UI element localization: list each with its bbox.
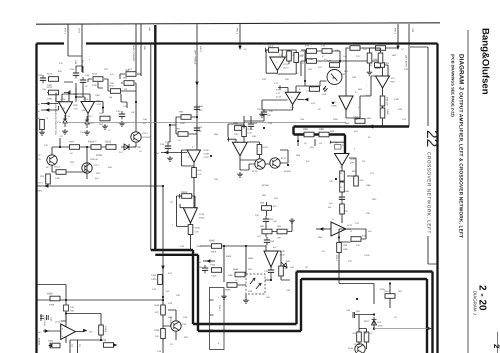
wire F right <box>389 284 391 309</box>
op-amp IC16b apex down <box>81 98 101 114</box>
svg-text:R88: R88 <box>303 128 308 131</box>
svg-text:220K: 220K <box>55 177 61 180</box>
resistor R98 <box>123 77 134 86</box>
wire D row <box>200 246 266 282</box>
svg-text:22K: 22K <box>356 55 360 58</box>
svg-text:R988: R988 <box>233 268 239 271</box>
svg-text:R203: R203 <box>263 146 269 149</box>
svg-text:P40-1: P40-1 <box>394 28 397 35</box>
wire 50Hz line <box>37 182 164 193</box>
wire E4 feed <box>298 135 315 147</box>
node labels scatter 3 <box>226 122 308 299</box>
svg-text:Y400: Y400 <box>210 264 216 267</box>
svg-text:P40-3: P40-3 <box>236 28 239 35</box>
diode D41 <box>372 317 384 328</box>
resistor C98B <box>374 43 386 51</box>
resistor R86B <box>380 96 388 106</box>
svg-text:DIAGRAM J OUTPUT AMPLIFIER, LE: DIAGRAM J OUTPUT AMPLIFIER, LEFT & CROSS… <box>458 54 465 238</box>
svg-text:P41-1: P41-1 <box>218 305 221 312</box>
svg-text:4148: 4148 <box>378 325 384 328</box>
svg-text:BC560: BC560 <box>284 170 291 173</box>
op-amp IC14c apex down <box>331 96 353 110</box>
resistor R79 <box>349 43 360 51</box>
svg-text:100n: 100n <box>373 58 379 61</box>
wire D out <box>224 251 290 298</box>
capacitor C4D <box>116 110 125 119</box>
svg-text:R74: R74 <box>268 45 273 48</box>
svg-text:R214: R214 <box>92 73 98 76</box>
label C19 C20 <box>71 344 82 348</box>
resistor R206 <box>88 141 101 150</box>
capacitor C43 <box>376 48 383 63</box>
svg-text:LDR: LDR <box>322 93 327 96</box>
resistor R987 <box>209 240 222 254</box>
capacitor C89 <box>227 137 236 142</box>
resistor R75 <box>294 53 304 63</box>
svg-text:R7B: R7B <box>327 60 332 63</box>
input arrow AA treble <box>156 151 187 155</box>
svg-text:R72C: R72C <box>283 63 289 66</box>
svg-text:100K: 100K <box>96 154 102 157</box>
wire P40-1 7V stub <box>394 24 405 51</box>
node J4 <box>297 140 299 142</box>
svg-text:C4D: C4D <box>116 110 121 113</box>
svg-text:R209: R209 <box>248 128 254 131</box>
svg-text:1C16: 1C16 <box>60 98 66 101</box>
node J1 <box>162 296 164 298</box>
svg-text:1C22: 1C22 <box>350 158 356 161</box>
svg-text:100K: 100K <box>92 84 98 87</box>
svg-text:DIAGRAM J: DIAGRAM J <box>473 291 478 315</box>
svg-text:1C22: 1C22 <box>347 224 353 227</box>
svg-text:100n: 100n <box>343 248 349 251</box>
capacitor C41B <box>380 108 389 118</box>
svg-text:100n: 100n <box>366 184 372 187</box>
svg-text:10K: 10K <box>277 237 281 240</box>
svg-text:10K: 10K <box>285 78 289 81</box>
ground g3 <box>102 124 108 129</box>
svg-text:R7A: R7A <box>344 70 349 73</box>
svg-text:100K: 100K <box>47 98 53 101</box>
svg-text:R987: R987 <box>47 293 54 296</box>
resistor R40A <box>151 266 165 285</box>
wire LEFT BASS <box>405 24 415 117</box>
capacitor C74 <box>287 51 295 61</box>
svg-text:C41B: C41B <box>386 109 389 115</box>
svg-text:R80C: R80C <box>331 101 337 104</box>
svg-text:C40A: C40A <box>211 275 217 278</box>
wire ladder D <box>266 202 292 251</box>
resistor R96 <box>179 111 191 126</box>
svg-text:R189: R189 <box>154 304 160 307</box>
input arrow AA D <box>198 259 215 264</box>
svg-text:LEFT TREBLE: LEFT TREBLE <box>194 50 197 65</box>
wire vertical 50Hz branch <box>162 186 164 341</box>
capacitor C76 <box>321 45 339 54</box>
resistor R94b <box>277 225 287 240</box>
svg-text:10K: 10K <box>110 82 114 85</box>
frame gap at P22 crossing <box>64 42 86 46</box>
wire P40-3 -7V stub <box>236 24 247 51</box>
svg-text:0R22: 0R22 <box>364 320 370 323</box>
capacitor C88 <box>248 121 258 129</box>
transistor TR15 <box>254 159 265 175</box>
diode D90 <box>281 260 291 268</box>
capacitor C42 <box>363 48 372 63</box>
svg-text:1N4148: 1N4148 <box>90 158 98 161</box>
svg-text:22K: 22K <box>80 131 84 134</box>
wire P22-1 entry <box>64 24 83 72</box>
svg-text:22: 22 <box>423 130 440 147</box>
ground g11 <box>289 218 295 223</box>
svg-text:3C14: 3C14 <box>283 67 289 70</box>
resistor R52 <box>36 117 44 130</box>
wire bottom left chain <box>163 310 176 353</box>
input arrow AA left lower <box>37 106 59 113</box>
diode D17 <box>85 116 94 128</box>
node labels scatter <box>42 68 147 180</box>
svg-text:P22-1: P22-1 <box>64 28 67 35</box>
wire mid chain <box>190 235 192 251</box>
svg-text:-7V: -7V <box>243 48 247 51</box>
svg-text:100n: 100n <box>196 245 202 248</box>
svg-text:200V: 200V <box>367 117 373 120</box>
resistor R193 <box>384 290 395 298</box>
resistor R19A <box>48 340 60 348</box>
op-amp IC22b <box>331 218 353 236</box>
capacitor C4E <box>80 74 90 88</box>
resistor R44 <box>40 174 50 184</box>
svg-text:22K: 22K <box>269 110 273 113</box>
svg-text:Bang&Olufsen: Bang&Olufsen <box>480 28 491 95</box>
svg-text:C4D: C4D <box>152 288 157 291</box>
svg-text:22K: 22K <box>274 197 278 200</box>
photoresistor LDR1 <box>322 70 342 97</box>
svg-text:63V: 63V <box>58 70 62 73</box>
capacitor C91 <box>70 68 79 78</box>
resistor R211 <box>109 85 121 100</box>
resistor R190 <box>154 329 165 339</box>
svg-text:2C18: 2C18 <box>199 213 205 216</box>
capacitor C72 <box>274 82 288 92</box>
node J7 <box>389 282 391 284</box>
transistor TR12 <box>37 154 58 165</box>
resistor R41B <box>54 166 66 181</box>
svg-text:22K: 22K <box>44 144 48 147</box>
wire C2 links <box>228 115 264 160</box>
op-amp IC16a apex down <box>59 98 79 114</box>
svg-text:100n: 100n <box>333 118 339 121</box>
resistor R205 <box>233 122 245 137</box>
wire E caps <box>370 48 381 70</box>
wire E5 out <box>339 229 366 284</box>
op-amp IC18b <box>55 321 76 340</box>
bus A main trace <box>151 25 301 331</box>
input arrow E2 <box>262 98 308 101</box>
svg-text:50Hz: 50Hz <box>37 190 42 193</box>
svg-text:2C17: 2C17 <box>94 164 100 167</box>
svg-text:0C20: 0C20 <box>252 170 258 173</box>
capacitor C97 <box>194 125 203 133</box>
wire standby rail <box>37 285 67 344</box>
connector P41-1 <box>210 288 225 350</box>
capacitor C18A <box>40 314 53 327</box>
svg-text:R212: R212 <box>47 86 53 89</box>
resistor R203 <box>257 145 268 155</box>
wire E fb <box>317 46 398 63</box>
svg-text:C40A: C40A <box>151 278 157 281</box>
diode D40 <box>64 305 75 313</box>
svg-text:R41 A: R41 A <box>384 290 390 293</box>
op-amp IC20c apex down <box>264 248 286 267</box>
svg-text:1C18: 1C18 <box>55 321 61 324</box>
capacitor C87 <box>257 108 271 117</box>
resistor R194 <box>353 332 362 346</box>
resistor R88 <box>303 128 314 137</box>
resistor R74 <box>266 45 279 52</box>
svg-text:63V: 63V <box>50 318 53 322</box>
svg-text:10K: 10K <box>308 68 312 71</box>
resistor R94 ladder <box>260 225 272 234</box>
svg-text:2C16: 2C16 <box>83 98 89 101</box>
svg-text:10K: 10K <box>366 212 370 215</box>
node labels scatter 5 <box>59 42 409 263</box>
svg-text:2C: 2C <box>170 201 173 204</box>
svg-text:47K: 47K <box>344 210 348 213</box>
resistor R22B <box>340 182 345 192</box>
svg-text:R181: R181 <box>181 191 188 194</box>
svg-text:47K: 47K <box>306 160 310 163</box>
svg-text:2C20: 2C20 <box>204 156 210 159</box>
bus B speaker trace <box>294 127 433 353</box>
margin separator rule <box>467 30 469 353</box>
wire cluster A <box>64 66 141 132</box>
wire bias line y300 <box>37 299 164 301</box>
transistor TR17 <box>348 344 365 353</box>
svg-text:C80B: C80B <box>331 105 337 108</box>
wire C2 out <box>240 150 288 170</box>
svg-text:R213: R213 <box>47 73 53 76</box>
margin next column fragment <box>492 332 500 353</box>
resistor R181 feedback <box>180 191 196 208</box>
svg-text:0C14: 0C14 <box>143 132 149 135</box>
svg-text:D88: D88 <box>319 128 324 131</box>
resistor R213 <box>47 73 59 88</box>
svg-text:1M: 1M <box>109 96 112 99</box>
ground g1 <box>62 129 68 134</box>
svg-text:R18C: R18C <box>199 217 205 220</box>
node J5 <box>373 313 375 315</box>
svg-text:AMPL STANDBY: AMPL STANDBY <box>132 45 135 62</box>
capacitor C96 <box>194 104 204 112</box>
svg-text:R18 B: R18 B <box>104 326 107 333</box>
svg-text:C4E: C4E <box>85 74 90 77</box>
resistor R80 <box>306 87 320 93</box>
svg-text:47K: 47K <box>300 54 304 57</box>
svg-text:R20C: R20C <box>204 149 210 152</box>
svg-text:C41B: C41B <box>364 254 370 257</box>
22 crossover leader line <box>410 47 437 264</box>
resistor R91B <box>337 243 349 253</box>
resistor R41C <box>351 235 367 242</box>
capacitor C46 <box>346 309 374 318</box>
wire A extra links <box>47 82 136 163</box>
wire bass feed <box>408 117 410 127</box>
wire bias rail gray <box>65 123 373 129</box>
svg-text:R207: R207 <box>69 141 75 144</box>
svg-text:100n: 100n <box>95 94 101 97</box>
svg-text:220K: 220K <box>394 98 400 101</box>
resistor R195 <box>364 332 373 342</box>
svg-text:1M: 1M <box>124 88 127 91</box>
ground g10 <box>243 298 249 303</box>
node labels scatter 2 <box>157 133 220 353</box>
wire to-edge gray <box>374 327 432 330</box>
svg-text:R8B 220: R8B 220 <box>386 97 389 106</box>
op-amp IC14d apex down <box>376 76 396 88</box>
diode D88 <box>319 128 329 137</box>
resistor R189 <box>154 304 165 315</box>
wire A lower links <box>52 142 136 179</box>
wire opamp tops <box>62 90 90 102</box>
svg-text:LED: LED <box>266 296 271 299</box>
svg-text:R41 B: R41 B <box>54 166 61 169</box>
bus A thin branch <box>150 43 152 250</box>
resistor R97 <box>176 128 188 143</box>
resistor R212 <box>47 86 59 101</box>
svg-text:R98B: R98B <box>225 289 231 292</box>
resistor R76 <box>305 45 317 54</box>
svg-text:BC557B: BC557B <box>143 136 152 139</box>
svg-text:R987: R987 <box>209 240 216 243</box>
resistor R77 <box>307 59 323 69</box>
svg-text:C20B: C20B <box>204 153 210 156</box>
transistor TR11 <box>131 132 151 142</box>
ground g13 <box>367 70 373 75</box>
wire IC18a feedback loop <box>177 196 191 227</box>
resistor R22D <box>354 176 365 186</box>
feedback resistor R18B <box>99 325 107 335</box>
resistor R988 <box>233 268 245 282</box>
capacitor C41A <box>353 116 372 124</box>
outer top rule <box>36 23 440 24</box>
wire treble feedback <box>182 150 195 208</box>
svg-text:1N: 1N <box>319 142 322 145</box>
schematic frame <box>37 44 438 353</box>
wire E top links <box>277 50 306 76</box>
op-amp IC20a treble apex down <box>187 146 210 163</box>
svg-text:49K9: 49K9 <box>226 255 232 258</box>
svg-text:22K: 22K <box>255 214 259 217</box>
wire E1 feedback loop <box>266 50 296 73</box>
svg-text:220K: 220K <box>308 58 314 61</box>
resistor R193 <box>100 339 118 347</box>
svg-text:10K: 10K <box>214 178 218 181</box>
svg-text:R71C: R71C <box>276 89 282 92</box>
capacitor C22A <box>339 194 345 202</box>
capacitor C98 <box>198 265 208 273</box>
wire treble input <box>168 117 197 150</box>
svg-text:R7C: R7C <box>311 102 316 105</box>
wire E2 links <box>262 50 327 110</box>
resistor R95 <box>279 266 289 276</box>
svg-text:0C21: 0C21 <box>281 157 287 160</box>
svg-text:47K: 47K <box>306 85 310 88</box>
svg-text:C18 10u: C18 10u <box>43 318 46 327</box>
ground g9 <box>221 294 227 299</box>
svg-text:P22-4: P22-4 <box>37 182 44 185</box>
svg-text:0C42: 0C42 <box>348 347 354 350</box>
wire B feedback <box>61 314 101 353</box>
wire row A bottom <box>60 102 106 148</box>
wire AMPL STANDBY entry <box>132 24 141 76</box>
resistor R91 ladder top <box>260 202 278 211</box>
wire E3 links <box>346 61 388 127</box>
svg-text:2: 2 <box>492 344 500 349</box>
op-amp IC14a apex down <box>270 57 290 71</box>
junction dots scatter <box>59 60 358 341</box>
svg-text:10K: 10K <box>234 133 238 136</box>
resistor R202 <box>96 141 116 158</box>
wire P40-2 LEFT TREBLE <box>194 24 203 147</box>
capacitor C93 <box>263 216 274 224</box>
svg-text:BC: BC <box>46 166 49 169</box>
wire E4 chain <box>331 158 356 229</box>
svg-text:R98A: R98A <box>248 257 254 260</box>
node labels scatter 6 <box>152 272 180 319</box>
resistor R204 <box>192 168 203 178</box>
svg-text:220p: 220p <box>380 288 386 291</box>
svg-text:2C14: 2C14 <box>276 96 282 99</box>
resistor R22C <box>328 204 344 214</box>
wire F links <box>359 315 374 350</box>
op-amp IC22a apex down <box>331 141 357 166</box>
svg-text:1C17: 1C17 <box>37 154 43 157</box>
svg-text:J22-1: J22-1 <box>78 28 81 34</box>
option dashed box <box>246 274 265 294</box>
svg-text:R4D: R4D <box>168 316 173 319</box>
svg-text:4K99: 4K99 <box>49 304 55 307</box>
input arrow E5 <box>316 227 331 230</box>
ground g8 <box>237 172 243 177</box>
svg-text:R192: R192 <box>48 340 54 343</box>
resistor R185 <box>188 225 200 235</box>
svg-text:R190: R190 <box>154 329 160 332</box>
transistor TR14 <box>169 317 187 331</box>
svg-text:R206-T: R206-T <box>88 141 97 144</box>
svg-text:LEFT BASS: LEFT BASS <box>405 55 408 67</box>
ground g4 <box>119 121 125 126</box>
ground g2 <box>84 130 90 135</box>
node J3 <box>223 245 225 247</box>
svg-text:10K: 10K <box>252 135 256 138</box>
svg-text:49K9: 49K9 <box>211 251 217 254</box>
ground g6 <box>167 156 173 161</box>
svg-text:P41-2: P41-2 <box>335 255 338 262</box>
resistor R209 <box>242 127 254 137</box>
svg-text:R8C: R8C <box>372 198 377 201</box>
capacitor C90 <box>38 74 46 83</box>
transistor TR13 <box>82 163 100 173</box>
svg-text:2C20: 2C20 <box>280 254 286 257</box>
transistor TR16 <box>270 158 280 174</box>
resistor R7B <box>327 60 340 68</box>
svg-text:R9A: R9A <box>318 236 323 239</box>
node J2 <box>245 245 247 247</box>
svg-text:2PG: 2PG <box>350 162 355 165</box>
capacitor C94 <box>264 237 275 245</box>
op-amp IC14b apex down <box>276 89 300 105</box>
